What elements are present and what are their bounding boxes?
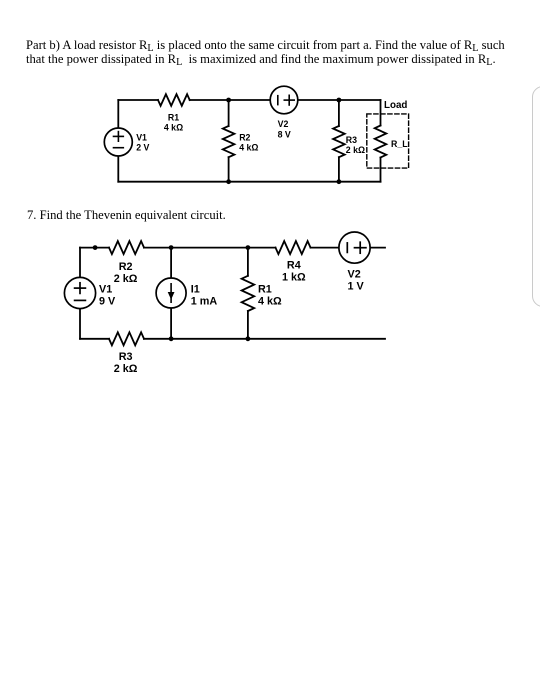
svg-text:V1: V1 [136,132,147,142]
node dot circuit1 bottom R3 [337,179,342,184]
svg-text:R1: R1 [258,284,272,296]
resistor R4 (1 kΩ) circuit2 [276,241,311,254]
wire: circuit1 top rail [118,99,158,101]
node dot circuit2 bottom R1 [246,336,251,341]
svg-text:4 kΩ: 4 kΩ [258,296,282,308]
wire: circuit1 left rail [117,100,119,182]
svg-text:4 kΩ: 4 kΩ [164,122,183,132]
svg-text:R2: R2 [239,133,250,143]
voltage source V2 circuit2 [339,232,370,263]
svg-text:V2: V2 [348,269,361,281]
svg-text:R1: R1 [168,112,179,122]
node dot circuit2 top I1 [169,245,174,250]
wire: circuit2 top rail [80,247,109,249]
node dot circuit2 top R1 [246,245,251,250]
problem text part b [26,38,505,66]
wire: R3 column circuit1 [338,100,340,126]
wire: I1 column circuit2 [170,248,172,278]
svg-text:V2: V2 [278,119,289,129]
voltage source V1 circuit1 [104,128,132,156]
svg-text:4 kΩ: 4 kΩ [239,143,258,153]
node dot circuit1 top R2 [226,98,231,103]
svg-text:2 kΩ: 2 kΩ [114,273,138,285]
voltage source V2 circuit1 [270,86,298,114]
node dot circuit2 bottom I1 [169,336,174,341]
svg-text:R3: R3 [346,135,357,145]
wire: circuit2 left rail [79,248,81,339]
node dot circuit1 bottom R2 [226,179,231,184]
svg-text:2 kΩ: 2 kΩ [346,145,365,155]
wire: circuit1 bottom rail [118,181,380,183]
svg-text:R_L: R_L [391,139,408,149]
resistor R3 (2 kΩ) circuit1 [333,126,345,157]
current source I1 circuit2 [156,278,186,308]
svg-text:1 V: 1 V [348,281,365,293]
svg-text:2 kΩ: 2 kΩ [114,363,138,375]
resistor R2 (2 kΩ) circuit2 [109,241,144,254]
resistor R1 (4 kΩ) circuit1 [158,94,190,106]
svg-text:R4: R4 [287,260,301,272]
wire: circuit2 bottom rail [80,338,109,340]
wire: R2 column circuit1 [228,100,230,126]
node dot circuit2 top after V1 [93,245,98,250]
svg-text:I1: I1 [191,284,200,296]
svg-text:9 V: 9 V [99,296,116,308]
svg-text:R2: R2 [119,261,133,273]
node dot circuit1 top R3 [337,98,342,103]
wire: R1 column circuit2 [247,248,249,276]
scrollbar thumb [532,86,540,307]
load dashed box circuit1 [367,114,409,168]
svg-text:8 V: 8 V [278,130,291,140]
svg-text:1 mA: 1 mA [191,296,218,308]
resistor R_L load circuit1 [375,126,387,158]
problem text 7 [27,208,226,222]
svg-text:Load: Load [384,100,407,111]
resistor R1 (4 kΩ) circuit2 [242,276,255,311]
svg-text:2 V: 2 V [136,142,149,152]
resistor R3 (2 kΩ) circuit2 [109,332,144,345]
svg-text:R3: R3 [119,351,133,363]
wire: circuit1 right branch RL column [380,100,382,126]
voltage source V1 circuit2 [64,277,95,308]
svg-text:V1: V1 [99,284,112,296]
svg-text:1 kΩ: 1 kΩ [282,272,306,284]
resistor R2 (4 kΩ) circuit1 [223,126,235,157]
